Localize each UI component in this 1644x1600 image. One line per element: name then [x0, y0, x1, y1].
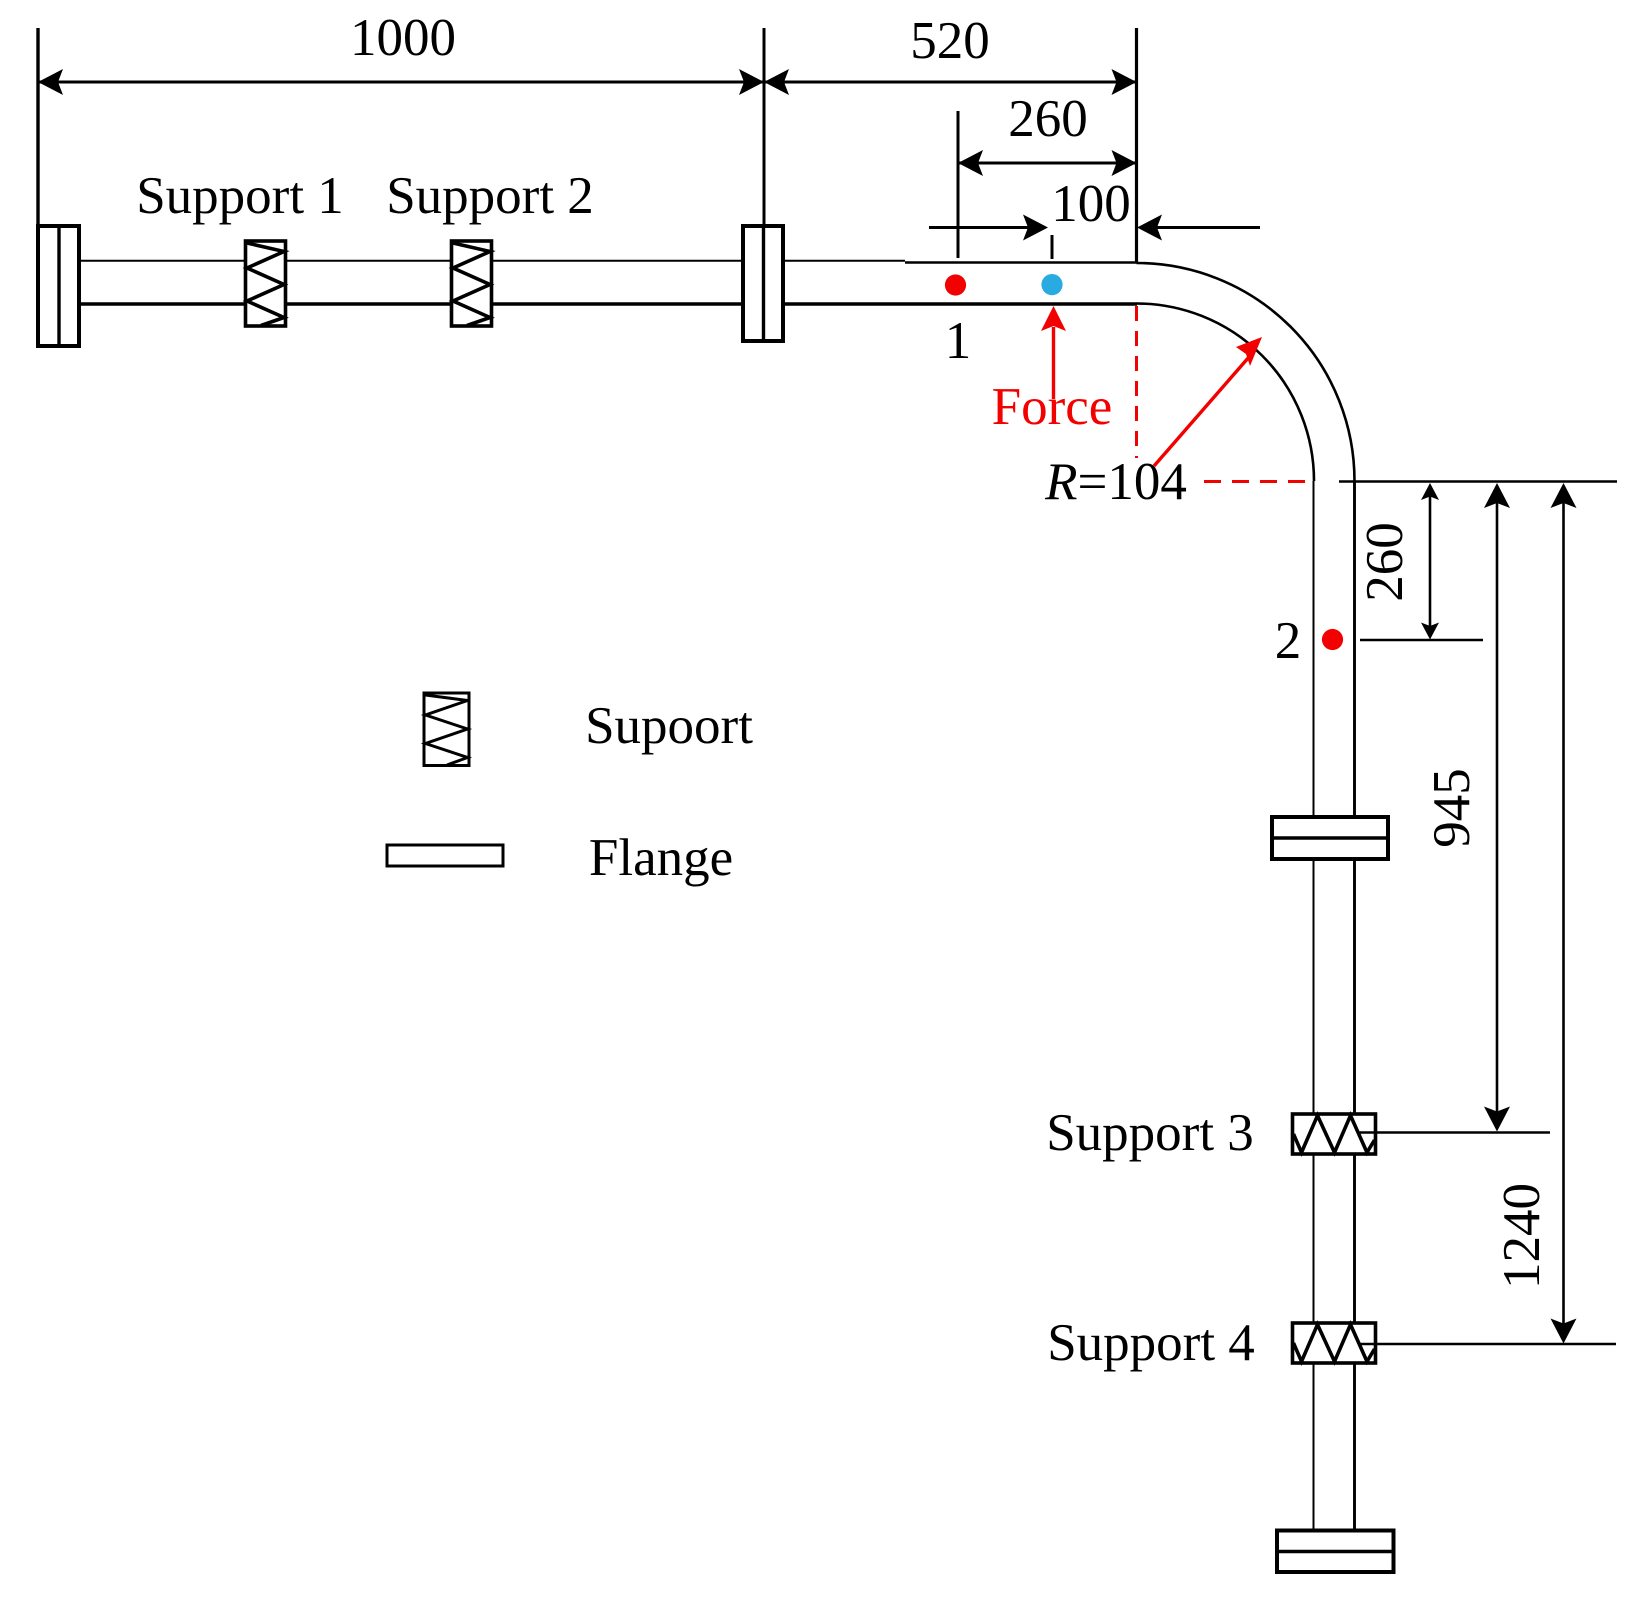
legend support symbol	[424, 693, 469, 766]
extension line right (x=1136.5)	[1135, 28, 1138, 262]
dimension 100 right arrow	[1155, 226, 1260, 229]
support S3	[1293, 1114, 1376, 1154]
svg-text:1240: 1240	[1493, 1183, 1551, 1289]
svg-text:260: 260	[1356, 522, 1414, 602]
top reference line at bend exit (y=481.5)	[1339, 480, 1617, 483]
dimension line 260 top	[958, 162, 1137, 165]
dimension line 1000	[38, 81, 764, 84]
legend flange symbol	[387, 845, 503, 866]
svg-text:2: 2	[1275, 612, 1302, 670]
node force point blue dot	[1041, 274, 1062, 295]
reference line from support 4 (y=1344)	[1360, 1343, 1616, 1346]
svg-text:1000: 1000	[350, 9, 456, 67]
svg-text:100: 100	[1051, 175, 1131, 233]
dimension 945 vertical	[1484, 483, 1510, 1132]
reference line from support 3 (y=1132.5)	[1359, 1131, 1550, 1134]
svg-text:Support 4: Support 4	[1047, 1314, 1255, 1372]
dimension 260 vertical	[1421, 483, 1439, 640]
svg-text:Flange: Flange	[589, 829, 733, 887]
node 1 red dot	[945, 274, 966, 295]
svg-text:R=104: R=104	[1044, 453, 1187, 511]
svg-text:Support 3: Support 3	[1046, 1104, 1254, 1162]
svg-text:1: 1	[945, 312, 972, 370]
red dashed vertical line (bend center)	[1135, 306, 1138, 458]
svg-text:Supoort: Supoort	[585, 697, 753, 755]
extension line middle (x=764)	[763, 28, 766, 226]
wire vertical pipe left line	[1313, 481, 1315, 1531]
wire horizontal pipe top line right segment	[905, 261, 1137, 264]
support S4	[1293, 1323, 1376, 1363]
wire vertical pipe right line	[1353, 481, 1356, 1531]
reference line for 260 bottom (y=640)	[1360, 639, 1483, 642]
tick below 100 (x=1052)	[1051, 235, 1054, 259]
svg-text:520: 520	[910, 12, 990, 70]
support S2	[452, 241, 492, 326]
node 2 red dot	[1322, 629, 1343, 650]
elbow outer arc R=104	[1137, 263, 1355, 481]
wire horizontal pipe top line left segment	[79, 260, 905, 262]
extension line for 260 (x=958)	[957, 111, 960, 258]
dimension text 945 (rotated)	[1423, 768, 1481, 848]
flange F1 left end	[38, 226, 79, 346]
svg-text:Support 1: Support 1	[136, 167, 344, 225]
red dashed horizontal line (bend center)	[1204, 480, 1316, 483]
flange F3 on vertical pipe	[1272, 817, 1388, 859]
dimension line 520	[764, 81, 1137, 84]
flange F2 middle	[743, 226, 783, 341]
support S1	[246, 241, 286, 326]
svg-text:Force: Force	[992, 378, 1113, 436]
dimension text 260 vertical (rotated)	[1356, 522, 1414, 602]
flange F4 bottom end	[1277, 1531, 1394, 1573]
force arrow (red)	[1041, 306, 1066, 399]
wire horizontal pipe bottom line	[79, 302, 1137, 305]
svg-text:260: 260	[1008, 90, 1088, 148]
elbow inner arc	[1137, 304, 1315, 482]
dimension text 1240 (rotated)	[1493, 1183, 1551, 1289]
svg-text:Support 2: Support 2	[386, 167, 594, 225]
dimension 100 left arrow	[929, 226, 1030, 229]
radius arrow (red) to bend	[1154, 337, 1262, 466]
dimension 1240 vertical	[1551, 483, 1577, 1344]
svg-text:945: 945	[1423, 768, 1481, 848]
extension line left (x=38)	[36, 28, 39, 226]
